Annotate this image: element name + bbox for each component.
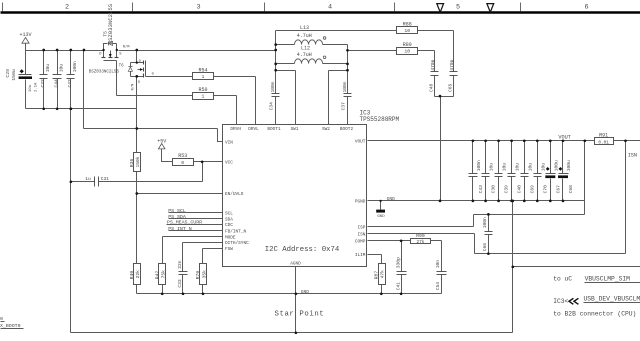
svg-text:SW1: SW1 (291, 127, 299, 132)
svg-text:BOOT2: BOOT2 (340, 127, 354, 132)
svg-text:ISP: ISP (357, 226, 365, 231)
svg-text:G: G (152, 73, 154, 77)
svg-text:MODE: MODE (225, 235, 236, 240)
svg-text:22k: 22k (135, 270, 141, 279)
svg-text:X_BOOT0: X_BOOT0 (0, 323, 21, 329)
svg-text:DITH/SYNC: DITH/SYNC (225, 241, 249, 246)
svg-text:C29: C29 (5, 69, 11, 78)
svg-text:1u: 1u (85, 176, 91, 182)
svg-text:4: 4 (328, 3, 332, 11)
svg-text:AGND: AGND (290, 262, 301, 267)
svg-text:10u: 10u (29, 85, 33, 92)
svg-text:C41: C41 (396, 282, 402, 291)
svg-text:GND: GND (301, 289, 310, 295)
svg-text:R53: R53 (178, 153, 187, 159)
svg-text:R42: R42 (154, 271, 160, 280)
svg-text:R36: R36 (129, 158, 135, 167)
svg-text:N/M: N/M (123, 45, 130, 50)
svg-text:3: 3 (196, 3, 200, 11)
svg-text:27k: 27k (416, 240, 424, 245)
svg-text:CDC: CDC (225, 223, 233, 228)
svg-text:10: 10 (404, 49, 410, 55)
svg-text:C66: C66 (482, 243, 488, 252)
svg-text:0: 0 (181, 160, 184, 166)
svg-text:C65: C65 (448, 83, 454, 92)
svg-text:R54: R54 (198, 68, 207, 74)
svg-text:150u: 150u (11, 69, 17, 81)
svg-text:R88: R88 (403, 22, 412, 28)
svg-text:VOUT: VOUT (355, 140, 366, 145)
svg-text:SDA: SDA (225, 218, 233, 223)
svg-text:C43: C43 (478, 185, 484, 194)
svg-text:R89: R89 (403, 42, 412, 48)
svg-text:IC3<: IC3< (553, 298, 568, 305)
svg-text:FSW: FSW (225, 247, 233, 252)
svg-text:T6: T6 (119, 64, 125, 68)
svg-text:1: 1 (202, 94, 205, 100)
svg-text:C31: C31 (101, 176, 110, 182)
svg-text:10: 10 (404, 28, 410, 34)
svg-text:0.01: 0.01 (598, 140, 609, 145)
svg-text:2.1A: 2.1A (35, 82, 39, 92)
svg-text:75k: 75k (161, 270, 167, 279)
svg-text:47k: 47k (380, 270, 386, 279)
svg-text:10u: 10u (502, 163, 508, 172)
svg-text:FB/INT_N: FB/INT_N (225, 229, 246, 234)
svg-text:5: 5 (456, 3, 460, 11)
svg-text:BSZ033NC2L5S: BSZ033NC2L5S (89, 70, 120, 74)
svg-text:0: 0 (0, 316, 3, 322)
svg-text:10u: 10u (527, 163, 533, 172)
svg-text:100n: 100n (342, 81, 348, 92)
svg-text:TPS55288RPM: TPS55288RPM (360, 116, 400, 123)
svg-text:PS_INT_N: PS_INT_N (168, 226, 192, 232)
svg-text:C32: C32 (40, 79, 46, 88)
svg-text:470p: 470p (430, 59, 436, 70)
svg-text:EN/UVLO: EN/UVLO (225, 192, 244, 197)
svg-text:PS_SDA: PS_SDA (168, 214, 186, 220)
svg-text:DRVL: DRVL (248, 127, 259, 132)
svg-text:C68: C68 (568, 185, 574, 194)
svg-text:R50: R50 (198, 87, 207, 93)
svg-text:C33: C33 (177, 279, 183, 288)
svg-text:R40: R40 (129, 271, 135, 280)
svg-text:SCL: SCL (225, 212, 233, 217)
svg-text:BSZ033NC2L5S: BSZ033NC2L5S (107, 3, 114, 44)
svg-text:Star Point: Star Point (275, 311, 325, 319)
svg-text:COMP: COMP (355, 240, 366, 245)
svg-text:C39: C39 (504, 185, 510, 194)
svg-text:VOUT: VOUT (558, 135, 570, 141)
svg-text:PS_SCL: PS_SCL (168, 208, 186, 214)
svg-text:330p: 330p (396, 257, 402, 268)
svg-text:100n: 100n (482, 217, 488, 228)
svg-text:C34: C34 (269, 102, 275, 111)
svg-text:GND: GND (387, 196, 396, 202)
svg-text:VIN: VIN (225, 141, 233, 146)
svg-text:to uC: to uC (553, 275, 572, 282)
svg-text:6: 6 (584, 3, 588, 11)
svg-text:SW2: SW2 (322, 127, 330, 132)
svg-text:R90: R90 (416, 233, 425, 239)
svg-text:R70: R70 (195, 271, 201, 280)
svg-text:4.7uH: 4.7uH (297, 52, 312, 58)
svg-text:USB_DEV_VBUSCLM: USB_DEV_VBUSCLM (584, 295, 640, 302)
svg-text:100n: 100n (270, 81, 276, 92)
svg-text:100u: 100u (566, 160, 572, 171)
svg-text:C30: C30 (491, 185, 497, 194)
svg-text:C44: C44 (53, 79, 59, 88)
svg-text:10u: 10u (489, 163, 495, 172)
svg-text:VCC: VCC (225, 161, 233, 166)
svg-text:DRVH: DRVH (230, 127, 241, 132)
svg-text:R91: R91 (599, 132, 608, 138)
svg-text:10u: 10u (515, 163, 521, 172)
svg-text:L13: L13 (300, 25, 309, 31)
svg-text:+13V: +13V (19, 32, 31, 38)
svg-text:to B2B connector (CPU): to B2B connector (CPU) (553, 310, 636, 317)
svg-text:100n: 100n (476, 160, 482, 171)
svg-text:22n: 22n (177, 260, 183, 269)
svg-text:10n: 10n (435, 260, 441, 269)
svg-text:10u: 10u (45, 64, 51, 73)
svg-text:2: 2 (65, 3, 69, 11)
svg-text:N/M: N/M (131, 84, 136, 91)
svg-text:VBUSCLMP_SIM: VBUSCLMP_SIM (585, 275, 631, 282)
svg-text:C48: C48 (429, 83, 435, 92)
svg-text:10u: 10u (540, 163, 546, 172)
svg-text:C54: C54 (435, 282, 441, 291)
svg-text:R87: R87 (374, 271, 380, 280)
svg-text:C67: C67 (555, 185, 561, 194)
svg-text:L12: L12 (301, 45, 310, 51)
svg-text:PGND: PGND (355, 200, 366, 205)
svg-text:470p: 470p (449, 59, 455, 70)
svg-text:ISN: ISN (628, 152, 637, 158)
svg-text:1: 1 (202, 74, 205, 80)
svg-text:BOOT1: BOOT1 (267, 127, 281, 132)
svg-text:C70: C70 (542, 185, 548, 194)
svg-text:35k: 35k (201, 270, 207, 279)
svg-text:GND: GND (377, 215, 385, 219)
svg-text:C37: C37 (340, 102, 346, 111)
svg-text:100u: 100u (553, 160, 559, 171)
svg-text:ISN: ISN (357, 233, 365, 238)
svg-text:+5V: +5V (157, 138, 166, 144)
svg-text:4.7uH: 4.7uH (297, 33, 312, 39)
svg-text:C40: C40 (517, 185, 523, 194)
svg-text:C42: C42 (67, 79, 73, 88)
svg-text:C69: C69 (529, 185, 535, 194)
svg-text:I2C Address: 0x74: I2C Address: 0x74 (265, 246, 340, 254)
svg-text:150k: 150k (135, 156, 141, 167)
svg-text:ILIM: ILIM (355, 253, 366, 258)
svg-text:10u: 10u (59, 64, 65, 73)
svg-text:100n: 100n (72, 61, 78, 72)
svg-text:PS_MEAS_CURR: PS_MEAS_CURR (167, 220, 202, 226)
